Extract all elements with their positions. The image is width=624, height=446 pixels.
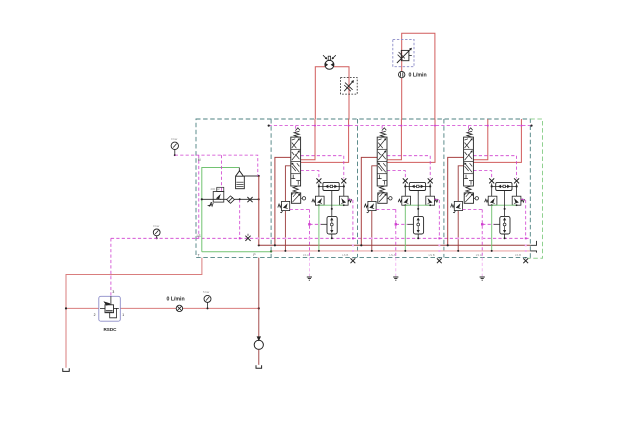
inlet: system relief valve 200 bar — [213, 192, 224, 203]
inlet: P riser inside manifold — [258, 176, 260, 245]
section 2 actuator loop piping — [401, 78, 403, 119]
throttle valve in dashed box on B line — [341, 78, 358, 95]
svg-text:1: 1 — [122, 313, 124, 317]
pressure gauge M port (0 bar) — [171, 142, 178, 149]
svg-text:0 bar: 0 bar — [153, 224, 159, 228]
inlet: LS rail plug X — [245, 236, 250, 241]
tank rail (salmon) — [271, 250, 530, 252]
svg-text:0 L/min: 0 L/min — [167, 297, 185, 303]
work section 2 — [360, 119, 442, 280]
inlet: compensator outlet to P riser — [244, 175, 258, 177]
work section 3 — [447, 119, 529, 280]
section divider 3 — [443, 119, 445, 257]
svg-text:T: T — [198, 254, 200, 258]
svg-text:0 L/min: 0 L/min — [409, 73, 427, 79]
hydraulic motor circuit lines — [315, 67, 325, 119]
flow control valve in blue box — [393, 39, 414, 66]
pilot measuring line M (magenta dashed) — [175, 154, 196, 156]
inlet: main relief line — [202, 198, 259, 200]
inlet: check valve — [227, 196, 235, 203]
flow meter (0 L/min) top — [399, 71, 405, 77]
end plate border (green dashed) — [528, 119, 543, 258]
LS pilot line to RSDC valve — [111, 237, 196, 239]
inlet: pilot from M line to relief — [220, 155, 222, 191]
svg-text:0 bar: 0 bar — [171, 137, 177, 141]
flow meter (0 L/min) bottom — [176, 305, 182, 311]
inlet: M pilot box (magenta dashed) — [196, 155, 258, 176]
section divider 2 — [357, 119, 359, 257]
svg-text:RSDC: RSDC — [103, 327, 117, 332]
work section 1 — [274, 119, 356, 280]
svg-text:5 bar: 5 bar — [203, 290, 209, 294]
pump (supply source) — [254, 340, 263, 349]
tank return line from manifold T port — [66, 258, 202, 368]
inlet: pilot box left edge — [198, 155, 200, 238]
inlet: green tank gallery — [202, 168, 240, 252]
tank symbol left — [63, 368, 70, 371]
inlet: plug X on pump line — [247, 197, 252, 202]
manifold enclosure (teal dashed) — [196, 119, 530, 257]
RSDC pilot loop — [110, 308, 117, 317]
end plate plugs at right rail ends — [530, 241, 536, 253]
pressure gauge 5 bar — [204, 295, 211, 302]
svg-text:3: 3 — [112, 290, 114, 294]
inlet: unloading compensator — [238, 168, 240, 172]
pressure gauge LS (0 bar) — [153, 229, 160, 236]
svg-text:M: M — [198, 158, 201, 162]
inlet: LS branch from check line — [239, 199, 241, 238]
pilot supply rail (magenta dashed) — [269, 125, 532, 127]
load-sense LS rail (magenta dashed) — [196, 237, 530, 239]
tank symbol under pump — [256, 365, 262, 368]
hydraulic motor — [325, 60, 334, 69]
main pump/supply line to RSDC — [66, 307, 99, 309]
svg-text:200 bar: 200 bar — [211, 187, 221, 191]
svg-text:2: 2 — [94, 313, 96, 317]
RSDC pressure reducing valve in blue box — [99, 296, 121, 321]
tank rail inlet segment (green) — [202, 251, 271, 253]
P riser from pump to manifold — [258, 258, 260, 341]
section divider 1 — [270, 119, 272, 257]
pressure rail P (dark red) — [259, 244, 531, 246]
